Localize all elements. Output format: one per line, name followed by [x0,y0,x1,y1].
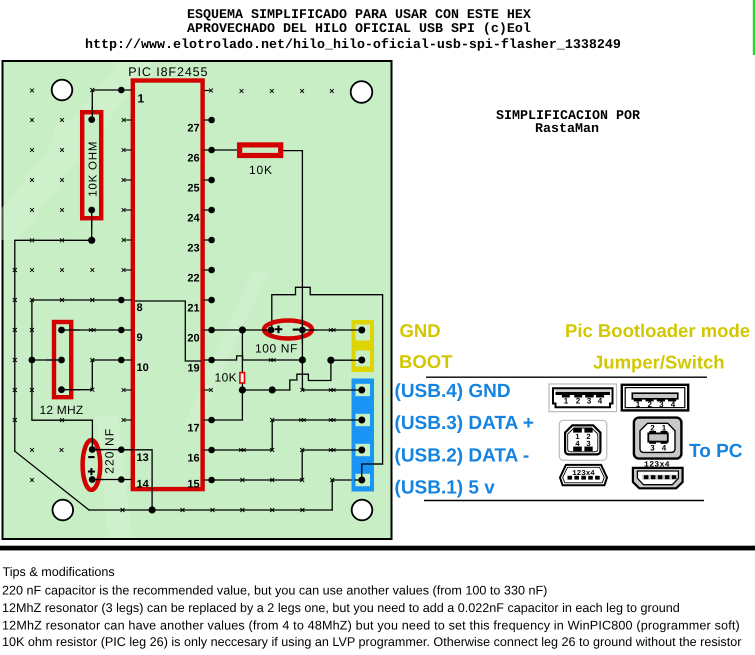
svg-text:8: 8 [137,302,143,314]
board background streaks [0,62,268,538]
wire: 100nF plus up and over to 5V drop [272,287,383,480]
svg-text:2: 2 [576,396,581,405]
svg-text:2: 2 [647,400,652,409]
svg-text:To PC: To PC [689,441,743,462]
svg-text:4: 4 [662,443,667,452]
C1 polarity minus [88,456,94,458]
capacitor C2 100 nF [264,321,312,339]
wire: BOOT node to staircase to BOOT pad [242,389,289,391]
svg-text:4: 4 [671,400,676,409]
svg-text:ESQUEMA SIMPLIFICADO PARA USAR: ESQUEMA SIMPLIFICADO PARA USAR CON ESTE … [187,8,531,23]
mini-USB plug icon [633,468,683,488]
wire: pin19 VSS to GND rail node [212,356,303,360]
wire: left rail diagonal to bottom 5V bus [15,451,89,510]
wire: pin26 through R2 10K to GND rail [212,149,237,151]
wire: R1 bottom to node at row 240 [91,210,93,240]
svg-text:GND: GND [400,320,441,341]
svg-text:(USB.2) DATA -: (USB.2) DATA - [395,446,530,467]
svg-text:220 NF: 220 NF [103,428,117,474]
wire: 220nF plus to pin14 VUSB [92,479,121,481]
svg-text:http://www.elotrolado.net/hilo: http://www.elotrolado.net/hilo_hilo-ofic… [85,38,621,53]
capacitor C1 220 nF [83,440,101,490]
chip left pin pads (1,8,9,10,13,14) [118,87,131,483]
svg-text:10K: 10K [249,163,273,177]
separator line 1 [426,376,707,378]
resistor R3 10K pullup [240,373,245,383]
wire: pin1 MCLR to R1 top [92,90,121,120]
mini-USB receptacle icon [560,465,607,485]
C2 polarity plus [275,326,283,334]
svg-text:9: 9 [137,332,143,344]
wire: VDD pin20 row to 100nF plus [212,329,271,331]
svg-text:16: 16 [187,452,199,464]
svg-text:21: 21 [187,302,199,314]
wire: R3 bottom to BOOT node [241,383,243,390]
svg-text:19: 19 [187,362,199,374]
svg-text:10K: 10K [215,371,238,385]
wire stubs into blue pads [352,389,362,391]
wire: bottom 5V bus row 510 [89,509,332,511]
pin number labels right column [187,122,200,490]
mounting hole top-left [52,80,73,101]
svg-text:17: 17 [187,422,199,434]
USB-A plug icon [622,385,688,411]
wire stubs into yellow pads [352,329,362,331]
svg-text:12MhZ resonator can have anoth: 12MhZ resonator can have another values … [2,619,740,633]
svg-text:Tips & modifications: Tips & modifications [3,565,115,579]
svg-text:1: 1 [564,396,569,405]
USB-B plug icon [634,418,682,459]
wire: 5V elbow into USB.1 pad (over blue) [362,464,383,480]
svg-text:PIC I8F2455: PIC I8F2455 [128,65,208,79]
wire: pin17 to BOOT node [212,390,243,420]
svg-text:25: 25 [187,182,199,194]
USB connector J2 blue [352,379,375,492]
svg-text:(USB.4) GND: (USB.4) GND [395,381,511,402]
svg-text:1: 1 [138,92,145,106]
svg-text:Pic Bootloader mode: Pic Bootloader mode [565,320,750,341]
wire overdraw: vertical rail through C2 ring [301,316,303,343]
wire: GND x-node to USB.4 GND pad [302,389,361,391]
svg-text:3: 3 [650,443,655,452]
wire: GND pin8 to left bus [32,300,121,450]
C2 polarity minus [293,329,299,331]
wire: pin15 D- to USB.2 DATA- pad [212,450,362,480]
wire: chip internal pin8 to pin19 [135,301,200,361]
svg-text:3: 3 [659,400,664,409]
wire: resonator top pin to pin9 OSC1 [62,329,122,331]
svg-text:13: 13 [137,452,149,464]
mounting hole bottom-right [352,500,373,521]
chip left nc stubs (pins 2-7, 11, 12) [122,118,132,422]
chip right pin stubs and pads [204,117,215,484]
x mark: vertical rail end at GND usb wire [301,388,305,392]
wire: chip internal pin13 to bottom 5V bus [121,450,152,510]
wire: 5V bus row 240 to left rail [15,240,92,451]
green stripe top right edge [753,0,755,55]
USB-A receptacle icon [549,384,617,412]
svg-text:12 MHZ: 12 MHZ [40,403,84,417]
wire overdraw: X1 pin wires through border [60,329,79,331]
svg-text:100 NF: 100 NF [255,342,298,356]
jumper connector J1 (GND/BOOT) yellow [352,320,375,372]
svg-text:23: 23 [187,242,199,254]
wire: staircase with hop to yellow BOOT pad [290,360,362,390]
svg-text:22: 22 [187,272,199,284]
tips text [2,565,741,649]
wire: resonator middle pin to GND bus [32,359,62,361]
svg-text:27: 27 [187,122,199,134]
wire: resonator bottom pin to pin10 OSC2 [62,360,122,390]
wire: to USB.1 5v pad [332,479,362,481]
wire: 220nF minus to pin13 [92,449,121,451]
svg-text:APROVECHADO DEL HILO OFICIAL U: APROVECHADO DEL HILO OFICIAL USB SPI (c)… [187,22,531,37]
USB-B receptacle icon [559,420,607,460]
svg-text:26: 26 [187,152,199,164]
wire overdraw: C1 wires through ring [91,437,93,450]
wire: pin16 D+ to USB.3 DATA+ pad [212,420,362,450]
svg-text:24: 24 [187,212,200,224]
wire overdraw: row330 through C2 ring [263,329,272,331]
mounting hole top-right [351,81,373,103]
PCB board outline [3,61,392,539]
svg-text:1: 1 [636,400,641,409]
resistor R2 10K (pin 26) [240,145,281,156]
svg-text:2: 2 [650,423,655,432]
svg-text:15: 15 [187,479,199,491]
svg-text:Jumper/Switch: Jumper/Switch [593,352,725,373]
wire: R2 right side down vertical GND rail [283,151,302,390]
resistor R1 10K OHM [82,112,101,218]
PIC 18F2455 chip U1 body [133,81,203,490]
grid marks [30,89,334,482]
pin number labels left column [137,92,150,491]
wire: bottom bus up to 5V pad row [331,480,333,510]
wire: GND 100nF minus to yellow GND pad [302,329,361,331]
svg-text:10K ohm resistor (PIC leg 26): 10K ohm resistor (PIC leg 26) is only ne… [2,635,741,649]
svg-text:10K OHM: 10K OHM [88,141,100,197]
svg-text:4: 4 [598,396,603,405]
wire: R3 pullup from VDD row [241,330,243,373]
svg-text:1: 1 [662,423,667,432]
svg-text:(USB.3) DATA +: (USB.3) DATA + [395,413,535,434]
resonator X1 12 MHZ [54,322,71,397]
svg-text:(USB.1) 5 v: (USB.1) 5 v [395,478,496,499]
svg-text:10: 10 [137,362,149,374]
chip right nc stubs (pins 28,18) [205,89,213,392]
svg-text:220 nF capacitor is the recomm: 220 nF capacitor is the recommended valu… [2,584,547,598]
svg-text:3: 3 [586,439,590,448]
svg-text:14: 14 [137,479,150,491]
separator line 2 [424,500,704,502]
C1 polarity plus [88,468,95,475]
svg-text:RastaMan: RastaMan [535,122,599,137]
svg-text:12MhZ resonator (3 legs) can b: 12MhZ resonator (3 legs) can be replaced… [2,601,680,615]
wire overdraw: R1 pin wires through border [91,107,93,121]
svg-text:20: 20 [187,332,199,344]
mounting hole bottom-left [53,500,74,521]
svg-text:3: 3 [587,396,592,405]
bottom separator thick line [0,546,755,551]
svg-text:BOOT: BOOT [399,351,453,372]
